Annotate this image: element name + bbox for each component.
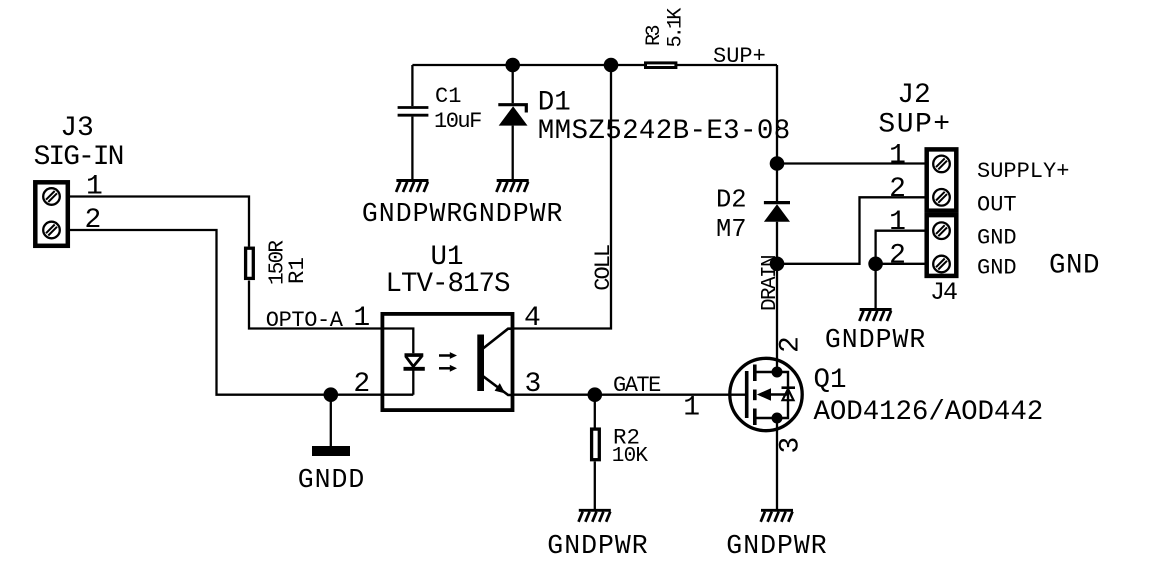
svg-text:R1: R1 — [284, 257, 310, 284]
Q1 pin 3 — [775, 437, 806, 454]
wire J4 pin2 GND — [876, 263, 925, 265]
Q1 drain link — [757, 367, 783, 378]
svg-text:1: 1 — [353, 303, 370, 334]
svg-text:GNDPWR: GNDPWR — [547, 531, 648, 561]
U1 pin 2 — [353, 369, 370, 400]
U1 pin 1 — [353, 303, 370, 334]
U1 LED triangle — [406, 356, 422, 366]
svg-text:SUP+: SUP+ — [878, 110, 951, 141]
Q1 channel dashes — [753, 365, 757, 426]
node GATE — [613, 373, 661, 398]
Q1 body arrow — [757, 388, 788, 400]
capacitor C1 — [398, 108, 429, 116]
svg-text:Q1: Q1 — [814, 365, 847, 396]
connector J3 — [35, 182, 68, 246]
wire DRAIN to J2 pin2 OUT — [777, 197, 925, 263]
wire C1 bottom lead — [411, 117, 413, 180]
pin 1 J2 — [889, 140, 906, 171]
label GNDPWR under D1 — [462, 199, 563, 229]
wire J3 pin1 to R1 — [70, 197, 249, 247]
svg-text:GNDPWR: GNDPWR — [362, 199, 463, 229]
ground GNDPWR under J4 — [859, 310, 891, 322]
svg-text:3: 3 — [775, 437, 806, 454]
pin name GND 2 — [977, 256, 1017, 281]
svg-text:5.1K: 5.1K — [665, 8, 688, 48]
svg-text:OPTO-A: OPTO-A — [266, 308, 344, 333]
label GNDPWR under R2 — [547, 531, 648, 561]
svg-text:LTV-817S: LTV-817S — [385, 269, 510, 300]
svg-text:J2: J2 — [897, 80, 931, 111]
svg-text:J3: J3 — [60, 113, 94, 144]
pin 1 J4 — [889, 207, 906, 238]
wire C1 top lead — [411, 65, 413, 106]
junction at U1 pin2 — [324, 387, 339, 402]
ground GNDPWR under C1 — [396, 181, 428, 193]
label C1 — [435, 84, 461, 109]
svg-text:1: 1 — [683, 393, 700, 424]
resistor R1 — [246, 248, 254, 278]
label U1 — [430, 242, 463, 273]
value AOD4126/AOD442 — [814, 397, 1044, 428]
Q1 gate bar — [745, 371, 749, 418]
value 10K — [612, 445, 649, 468]
value LTV-817S — [385, 269, 510, 300]
svg-text:OUT: OUT — [977, 192, 1017, 217]
label D1 — [538, 88, 571, 119]
connector J4 — [927, 215, 957, 276]
svg-text:GNDPWR: GNDPWR — [462, 199, 563, 229]
value MMSZ5242B-E3-08 — [538, 116, 791, 147]
ground GNDPWR under Q1 — [761, 510, 793, 522]
Q1 body diode branch — [777, 372, 788, 418]
ground GNDPWR under D1 — [496, 181, 528, 193]
node COLL — [591, 245, 616, 291]
wire D1 top lead — [512, 65, 514, 103]
svg-text:MMSZ5242B-E3-08: MMSZ5242B-E3-08 — [538, 116, 791, 147]
diode D2 — [764, 203, 790, 222]
wire SUPPLY+ to J2 pin1 — [777, 162, 925, 164]
junction at COLL — [604, 58, 619, 73]
U1 emitter — [483, 376, 513, 395]
svg-text:GND: GND — [977, 256, 1017, 281]
svg-text:M7: M7 — [716, 215, 747, 244]
Q1 pin 2 — [775, 336, 806, 353]
svg-text:R3: R3 — [643, 25, 666, 46]
Q1 body diode — [782, 388, 796, 401]
label R2 — [613, 425, 640, 451]
label GNDPWR under Q1 — [726, 531, 827, 561]
svg-text:GND: GND — [977, 226, 1017, 251]
wire J4 pin1 GND — [876, 231, 925, 264]
label GNDPWR under J4 — [825, 325, 926, 355]
svg-text:C1: C1 — [435, 84, 461, 109]
label J2 — [897, 80, 931, 111]
value 5.1K — [665, 8, 688, 48]
wire U1 pin3 to Q1 gate (GATE) — [514, 394, 745, 396]
label J3 — [60, 113, 94, 144]
svg-text:GND: GND — [1049, 251, 1100, 282]
pin name SUPPLY+ — [977, 159, 1069, 184]
transistor Q1 circle — [730, 358, 802, 430]
U1 pin 3 — [525, 369, 542, 400]
svg-text:AOD4126/AOD442: AOD4126/AOD442 — [814, 397, 1044, 428]
wire R2 to ground — [594, 462, 596, 510]
wire top rail — [412, 64, 777, 66]
svg-text:1: 1 — [889, 140, 906, 171]
svg-text:SUPPLY+: SUPPLY+ — [977, 159, 1069, 184]
pin 2 J2 — [889, 174, 906, 205]
svg-text:J4: J4 — [930, 278, 957, 307]
Q1 pin 1 — [683, 393, 700, 424]
label GNDD — [298, 465, 366, 495]
wire D2 to Q1 drain — [776, 222, 778, 372]
svg-text:1: 1 — [86, 172, 103, 203]
pin 2 J3 — [85, 205, 102, 236]
label R3 — [643, 25, 666, 46]
wire GATE to R2 — [594, 395, 596, 428]
U1 light arrow 2 — [439, 365, 457, 372]
U1 phototransistor base bar — [477, 335, 484, 392]
U1 LED cathode lead — [381, 369, 413, 395]
ground GNDPWR under R2 — [579, 510, 611, 522]
U1 collector — [483, 329, 513, 349]
junction GND — [868, 257, 883, 272]
U1 LED cathode bar — [404, 367, 425, 371]
junction DRAIN — [770, 257, 785, 272]
svg-text:2: 2 — [85, 205, 102, 236]
junction GATE — [588, 387, 603, 402]
ground GNDD — [312, 446, 350, 456]
U1 internal LED anode lead — [381, 329, 413, 354]
power label GND — [1049, 251, 1100, 282]
node DRAIN — [759, 256, 782, 311]
value M7 — [716, 215, 747, 244]
svg-text:2: 2 — [353, 369, 370, 400]
svg-text:GATE: GATE — [613, 373, 661, 398]
op-amp U1 body — [382, 314, 512, 410]
junction SUPPLY+ — [770, 156, 785, 171]
wire top rail to D2 — [776, 65, 778, 202]
wire U1 pin4 to top rail (COLL) — [514, 65, 611, 329]
svg-text:SIG-IN: SIG-IN — [34, 142, 123, 173]
wire GND junction to ground — [874, 264, 876, 308]
resistor R2 — [592, 429, 600, 460]
svg-text:1: 1 — [889, 207, 906, 238]
svg-text:GNDPWR: GNDPWR — [726, 531, 827, 561]
svg-text:COLL: COLL — [591, 245, 616, 291]
node OPTO-A — [266, 308, 344, 333]
U1 pin 4 — [524, 303, 541, 334]
wire Q1 source to ground — [776, 418, 778, 510]
connector J2 — [927, 149, 957, 210]
svg-text:10K: 10K — [612, 445, 649, 468]
label Q1 — [814, 365, 847, 396]
svg-text:SUP+: SUP+ — [713, 44, 766, 69]
wire R1 to U1 pin1 (OPTO-A) — [249, 281, 381, 329]
label D2 — [716, 186, 747, 215]
label SIG-IN — [34, 142, 123, 173]
wire D1 bottom lead — [512, 126, 514, 180]
wire to GNDD — [330, 395, 332, 446]
label GNDPWR under C1 — [362, 199, 463, 229]
svg-text:D2: D2 — [716, 186, 747, 215]
svg-text:GNDPWR: GNDPWR — [825, 325, 926, 355]
diode D1 zener — [498, 105, 527, 126]
value 10uF — [434, 109, 481, 134]
value 150R — [267, 240, 290, 285]
svg-text:2: 2 — [889, 174, 906, 205]
svg-text:D1: D1 — [538, 88, 571, 119]
Q1 source link — [757, 413, 783, 424]
label R1 — [284, 257, 310, 284]
pin name OUT — [977, 192, 1017, 217]
pin 2 J4 — [889, 241, 906, 272]
svg-text:GNDD: GNDD — [298, 465, 366, 495]
pin 1 J3 — [86, 172, 103, 203]
svg-text:2: 2 — [889, 241, 906, 272]
value SUP+ J2 — [878, 110, 951, 141]
pin name GND 1 — [977, 226, 1017, 251]
svg-text:2: 2 — [775, 336, 806, 353]
label J4 — [930, 278, 957, 307]
junction at D1 — [505, 58, 520, 73]
wire J3 pin2 to U1 pin2 — [70, 230, 381, 395]
U1 light arrow 1 — [439, 352, 457, 359]
node SUP+ — [713, 44, 766, 69]
U1 LED anode bar — [405, 353, 424, 357]
resistor R3 — [646, 63, 676, 68]
svg-text:10uF: 10uF — [434, 109, 481, 134]
